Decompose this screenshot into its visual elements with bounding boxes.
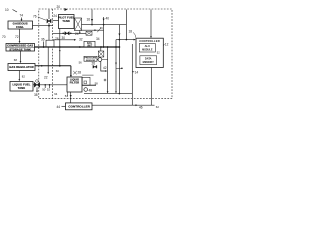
label 68 <box>14 58 18 62</box>
box ECU inner ALU module <box>139 44 155 53</box>
valve three-way right of B4 with actuator circle <box>34 82 37 87</box>
valve 76 on V1 <box>47 19 51 23</box>
wire into controller left <box>62 105 66 107</box>
svg-text:20: 20 <box>57 5 61 9</box>
label 20 on top edge <box>57 5 61 9</box>
label 44 <box>57 105 61 109</box>
label 74 <box>20 14 24 18</box>
wire valve to liquid separator <box>40 84 67 86</box>
node dot <box>62 33 64 35</box>
svg-text:40: 40 <box>106 17 110 21</box>
wire valve box to circle sensor <box>100 56 102 59</box>
label 22 <box>44 76 48 80</box>
label 24b <box>53 14 57 18</box>
label 76 <box>33 15 37 19</box>
label 40 <box>106 17 110 21</box>
label 36 <box>41 38 45 42</box>
node 10 label top-left <box>5 8 9 12</box>
node dot <box>107 46 109 48</box>
wire V1 vertical from top boundary through valve <box>48 10 50 20</box>
box B3 regulator <box>8 64 35 71</box>
svg-text:FILTER: FILTER <box>70 82 80 85</box>
wire pilot tank bottom to return line <box>59 29 61 67</box>
circle sensor lower left <box>84 88 88 92</box>
svg-text:32: 32 <box>79 38 83 42</box>
svg-text:78: 78 <box>55 37 59 41</box>
valve slash on pilot line <box>97 28 100 32</box>
wire box to circle <box>97 58 98 60</box>
wire arrow into box B1 top <box>21 18 23 21</box>
wire stub above attachment <box>82 74 93 76</box>
wire stub below junction <box>44 85 46 88</box>
label 70 <box>2 35 6 39</box>
svg-text:14: 14 <box>135 71 139 75</box>
svg-text:56: 56 <box>79 61 83 65</box>
node flow arrow on top boundary <box>65 8 68 11</box>
wire V12 arrow into ECU top <box>150 10 152 38</box>
box fuel rail <box>84 41 95 47</box>
component filter box with cross <box>86 31 92 35</box>
label 44b <box>89 89 93 93</box>
valve arrow on V7 <box>91 19 93 22</box>
wire from B4 to valve V74 <box>33 84 34 86</box>
svg-text:24: 24 <box>75 32 79 36</box>
node dot <box>44 84 46 86</box>
svg-text:52: 52 <box>47 88 51 92</box>
svg-text:44: 44 <box>57 105 61 109</box>
label 52 <box>47 88 51 92</box>
box gas injector <box>46 40 54 47</box>
box sensor unit <box>84 56 97 61</box>
label 42 <box>103 66 107 70</box>
box controller bottom <box>66 103 93 110</box>
wire from B1 down to B2 <box>19 29 21 43</box>
label 54 <box>65 94 69 98</box>
node junction on L4 <box>43 46 45 48</box>
node dot <box>100 46 102 48</box>
wire circle down to arrow line <box>101 62 106 72</box>
wire V4 down with arrow <box>47 47 49 74</box>
svg-text:30: 30 <box>62 36 66 40</box>
svg-text:18: 18 <box>129 30 133 34</box>
node dot <box>119 46 121 48</box>
wire leader 76 to valve <box>38 17 46 20</box>
wire into pilot tank <box>52 20 58 22</box>
label 56 <box>79 61 83 65</box>
wire L5 from B3 to separator <box>35 65 71 67</box>
svg-text:34: 34 <box>96 37 100 41</box>
wire from B2 down to B3 <box>20 51 22 63</box>
box B2 compressed gas tank <box>6 44 35 52</box>
svg-text:54: 54 <box>65 94 69 98</box>
label 60 <box>56 69 60 73</box>
svg-text:66: 66 <box>100 26 103 30</box>
wire L1 from B1 to valve column <box>33 25 54 27</box>
label 72 <box>15 35 19 39</box>
svg-text:36: 36 <box>41 38 45 42</box>
svg-text:COMPRESSED GAS: COMPRESSED GAS <box>7 45 33 48</box>
wire stub right with node <box>116 67 122 69</box>
svg-text:76: 76 <box>33 15 37 19</box>
box B4 liquid fuel tank <box>10 82 33 92</box>
node junction L1/V1 <box>48 25 50 27</box>
wire circle output stub <box>102 58 108 60</box>
svg-text:48: 48 <box>89 89 93 93</box>
label 38 <box>34 93 38 97</box>
node dot on L5 <box>59 65 61 67</box>
svg-text:TANK: TANK <box>62 19 70 23</box>
svg-text:CONTROLLER: CONTROLLER <box>68 105 90 109</box>
node tick label 14 <box>132 71 134 73</box>
svg-text:74: 74 <box>20 14 24 18</box>
svg-text:16: 16 <box>87 18 91 22</box>
svg-text:42: 42 <box>103 66 107 70</box>
svg-text:38: 38 <box>34 93 38 97</box>
wire V9 sensor line <box>118 25 120 94</box>
svg-text:72: 72 <box>15 35 19 39</box>
svg-text:ALU: ALU <box>145 44 150 48</box>
node dot <box>49 84 51 86</box>
box liquid separator <box>67 77 82 92</box>
wire leader 18 to ECU corner <box>133 33 136 38</box>
svg-text:UNIT: UNIT <box>87 45 93 47</box>
label 18 <box>129 30 133 34</box>
wire V14 separator to controller <box>70 92 72 103</box>
svg-text:50: 50 <box>42 88 46 92</box>
node dot <box>103 24 105 26</box>
svg-text:46: 46 <box>139 106 143 110</box>
box injector valve with cross <box>98 51 104 57</box>
label 24 <box>75 32 79 36</box>
label 62 <box>156 105 160 109</box>
label 50 <box>42 88 46 92</box>
box ECU inner memory module <box>140 56 157 65</box>
node dot <box>119 39 121 41</box>
label 32 <box>79 38 83 42</box>
label 64 <box>54 92 58 96</box>
svg-text:68: 68 <box>14 58 18 62</box>
svg-text:STORAGE TANK: STORAGE TANK <box>9 48 31 51</box>
wire pilot feed down to rail line <box>103 25 105 47</box>
valve cross mid cluster <box>93 65 97 68</box>
label 46 <box>139 106 143 110</box>
svg-text:82: 82 <box>22 74 26 78</box>
label 52 inside ECU <box>157 51 160 55</box>
node dot <box>126 39 128 41</box>
label 26 <box>92 61 96 65</box>
wire V6 down into separator <box>70 66 72 77</box>
wire V11 control line left of ECU <box>131 44 133 105</box>
wire L6 with arrow <box>53 39 76 41</box>
wire drain stub below separator <box>67 92 69 96</box>
box separator attachment <box>82 77 90 85</box>
wire L9 controller link <box>92 104 155 106</box>
node flow arrow on L5 <box>41 65 43 67</box>
label 16 <box>87 18 91 22</box>
wire stub to L4 <box>43 42 45 48</box>
svg-text:22: 22 <box>44 76 48 80</box>
wire leader from 10 <box>13 10 18 13</box>
svg-text:24: 24 <box>53 14 57 18</box>
wire L2a pump outlet <box>82 29 104 31</box>
node dot <box>59 46 61 48</box>
inner dashed boundary (pilot subsystem) <box>51 9 53 99</box>
check valve V8 with arrow <box>103 17 105 24</box>
wire L4 main gas rail line <box>35 46 120 48</box>
node dot <box>70 33 72 35</box>
wire stub below pump line <box>79 30 81 33</box>
valve on return line <box>65 32 69 35</box>
wire feed line into ECU <box>116 39 135 41</box>
wire V7 from top boundary to L3 <box>91 10 93 25</box>
label 66 <box>100 26 103 30</box>
svg-text:12: 12 <box>165 43 169 47</box>
box B1 gaseous fuel source <box>8 21 33 29</box>
label 30 <box>62 36 66 40</box>
label 28 <box>78 71 82 75</box>
node dot <box>115 46 117 48</box>
circle sensor <box>98 58 102 62</box>
component inner element <box>84 81 87 84</box>
svg-text:GAS REGULATOR: GAS REGULATOR <box>9 65 33 69</box>
box pump with cross <box>75 18 82 31</box>
node flow tick on V10b <box>115 63 117 65</box>
svg-text:26: 26 <box>92 61 96 65</box>
wire chain from L4 down to valve box <box>100 47 102 51</box>
wire stub below junction <box>49 85 51 88</box>
svg-text:10: 10 <box>5 8 9 12</box>
wire L8 sensor bus <box>84 93 132 95</box>
outer dashed enclosure <box>39 9 172 99</box>
label 58 <box>95 81 99 85</box>
label 34 <box>96 37 100 41</box>
wire leader 12 <box>163 44 164 46</box>
node arrow tick on V9 <box>118 34 120 36</box>
wire V10a down to bus <box>107 47 109 93</box>
svg-text:FUEL: FUEL <box>16 25 24 29</box>
wire L3 pilot high pressure line <box>82 24 127 26</box>
node dot <box>79 46 81 48</box>
wire valve drain with arrow <box>36 87 38 92</box>
node dot <box>103 46 105 48</box>
wire separator outlet upper <box>82 84 96 86</box>
node dot on dashed boundary <box>70 98 71 99</box>
svg-text:70: 70 <box>2 35 6 39</box>
wire V2 from top boundary to ECU <box>125 10 127 40</box>
svg-text:64: 64 <box>54 92 58 96</box>
wire L2b return line <box>53 32 87 34</box>
svg-text:62: 62 <box>156 105 160 109</box>
svg-text:CONTROLLER: CONTROLLER <box>139 39 160 43</box>
label 78 <box>55 37 59 41</box>
svg-text:28: 28 <box>78 71 82 75</box>
node dot <box>119 93 121 95</box>
valve small cross near separator top <box>73 71 77 74</box>
svg-text:TANK: TANK <box>18 86 26 90</box>
svg-text:MEMORY: MEMORY <box>143 61 154 64</box>
wire V13 ECU bottom down <box>150 68 152 106</box>
wire from B3 down to B4 <box>18 71 20 81</box>
node sensor circle <box>104 79 106 81</box>
wire V10b down to bus with arrow <box>115 40 117 93</box>
node dot <box>91 24 93 26</box>
svg-text:60: 60 <box>56 69 60 73</box>
svg-text:MODULE: MODULE <box>142 49 153 52</box>
label 82 <box>22 74 26 78</box>
box ECU outer <box>136 38 163 67</box>
label 12 <box>165 43 169 47</box>
box pilot fuel tank <box>59 15 75 29</box>
